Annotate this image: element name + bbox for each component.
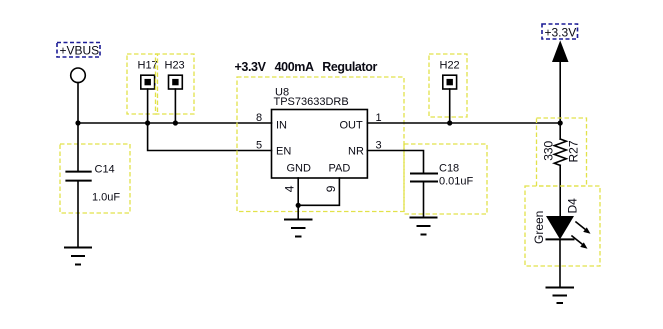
LED D4 triangle [546,216,574,239]
wire H23 to bus [174,89,176,123]
testpoint H23 pad [169,75,183,89]
svg-text:C14: C14 [95,164,115,176]
U8 body [272,110,368,179]
capacitor C18 [410,174,438,218]
svg-text:+VBUS: +VBUS [60,44,100,58]
wire bus to resistor [559,123,561,139]
svg-text:9: 9 [324,185,338,192]
svg-text:PAD: PAD [329,163,351,175]
testpoint H22 box [429,54,467,117]
wire LED to ground [559,239,561,287]
ground below C18 [410,218,438,235]
wire NR to C18 [367,151,423,173]
svg-text:4: 4 [282,185,296,192]
testpoint H22 pad [443,75,457,89]
svg-text:8: 8 [256,112,262,124]
junction pin4/pin9 [296,203,301,208]
svg-text:1.0uF: 1.0uF [92,192,120,204]
svg-text:R27: R27 [567,140,581,162]
svg-text:H22: H22 [440,60,460,72]
wire H17 to EN [148,89,272,151]
connector J VBUS circle [71,68,86,83]
LED emission arrow 2 [572,236,588,249]
op-amp U8 regulator group box [237,77,404,212]
svg-text:D4: D4 [566,198,580,214]
node +3.3V flag box [542,24,578,39]
svg-text:GND: GND [287,163,312,175]
wire +3.3V down to bus [559,62,561,124]
svg-text:H17: H17 [138,60,158,72]
svg-text:TPS73633DRB: TPS73633DRB [274,96,349,108]
resistor R27 box [537,118,587,186]
svg-text:C18: C18 [439,163,459,175]
junction H22 on bus [447,120,452,125]
wire OUT bus [367,122,560,124]
ground below C14 [64,248,92,265]
wire junction to ground [297,205,299,219]
junction at VBUS/C14 [75,120,80,125]
LED emission arrow 1 [576,222,591,234]
svg-text:0.01uF: 0.01uF [439,176,474,188]
wire pin4 down [297,178,299,205]
power arrow +3.3V [552,40,569,62]
node +VBUS flag box [57,43,100,58]
resistor R27 zigzag [554,139,566,165]
svg-text:EN: EN [276,146,291,158]
testpoint H23 box [156,54,195,114]
wire pin9 down and over [298,178,339,205]
wire VBUS circle to bus [77,83,79,123]
svg-text:+3.3V 400mA Regulator: +3.3V 400mA Regulator [235,60,378,74]
capacitor C14 box [60,144,130,213]
wire resistor to LED [559,165,561,216]
junction OUT bus / power [558,120,563,125]
svg-text:OUT: OUT [340,120,364,132]
testpoint H17 box [127,54,158,114]
ground below D4 [546,288,575,304]
svg-text:IN: IN [276,120,287,132]
svg-text:Green: Green [532,211,546,244]
svg-text:+3.3V: +3.3V [545,26,577,40]
svg-text:H23: H23 [165,60,185,72]
wire IN bus horizontal [78,122,272,124]
junction H23 on bus [173,120,178,125]
capacitor C14 [65,123,91,248]
LED D4 box [525,186,600,266]
svg-text:5: 5 [256,140,262,152]
testpoint H17 pad [141,75,155,89]
LED D4 cathode bar [546,238,575,240]
wire H22 to bus [449,89,451,123]
svg-text:330: 330 [541,140,555,160]
junction H17 on bus [145,120,150,125]
svg-text:NR: NR [348,146,364,158]
ground below U8 [284,220,313,237]
capacitor C18 box [404,144,487,214]
